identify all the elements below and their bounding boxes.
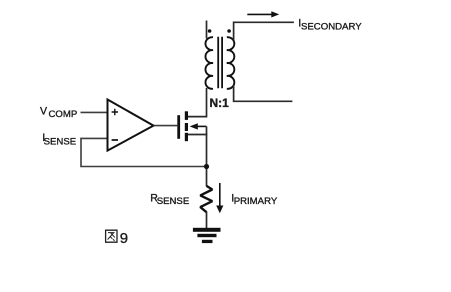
label ISECONDARY [298, 18, 362, 33]
transistor Q1 gate bar [177, 115, 180, 139]
transformer T1 primary phasing dot [208, 29, 212, 33]
wire drain tap to transformer primary [188, 88, 207, 117]
wire source tap [188, 134, 207, 136]
svg-text:PRIMARY: PRIMARY [234, 196, 278, 207]
ground [193, 228, 221, 243]
wire secondary bottom stub [234, 86, 293, 102]
transformer T1 secondary winding [227, 37, 235, 89]
svg-text:SENSE: SENSE [157, 196, 190, 207]
svg-text:SECONDARY: SECONDARY [301, 21, 362, 32]
transformer T1 primary top stub [206, 21, 208, 39]
svg-text:SENSE: SENSE [44, 136, 77, 147]
op-amp plus input symbol [112, 109, 118, 115]
wire secondary top to ISECONDARY [234, 22, 294, 40]
op-amp minus input symbol [112, 139, 118, 141]
op-amp U1 [108, 100, 154, 151]
svg-text:COMP: COMP [49, 109, 78, 120]
label VCOMP [40, 105, 77, 120]
label RSENSE [150, 193, 189, 208]
label N:1 [210, 96, 230, 110]
wire VCOMP to op-amp + input [81, 111, 107, 113]
wire resistor bottom to ground [206, 212, 208, 229]
label IPRIMARY [231, 193, 278, 208]
label ISENSE [42, 132, 76, 147]
node junction dot [204, 164, 209, 169]
transformer T1 primary winding [205, 37, 213, 89]
current arrow IPRIMARY [216, 183, 223, 213]
resistor RSENSE [200, 186, 212, 212]
svg-text:9: 9 [120, 230, 128, 247]
wire substrate and source down to node [206, 126, 208, 186]
transformer T1 secondary phasing dot [227, 29, 231, 33]
current arrow ISECONDARY [247, 11, 279, 17]
transistor Q1 substrate arrow [190, 123, 207, 129]
transistor Q1 channel segments [185, 111, 188, 141]
svg-text:N:1: N:1 [210, 96, 230, 110]
label figure 9 (Chinese character tu) [106, 230, 129, 247]
svg-text:V: V [40, 105, 48, 117]
wire ISENSE to op-amp - input [80, 137, 106, 139]
transformer T1 core lines [218, 37, 222, 89]
wire feedback from ISENSE node down and right to source node [81, 138, 205, 166]
wire op-amp output to MOSFET gate [154, 125, 177, 127]
